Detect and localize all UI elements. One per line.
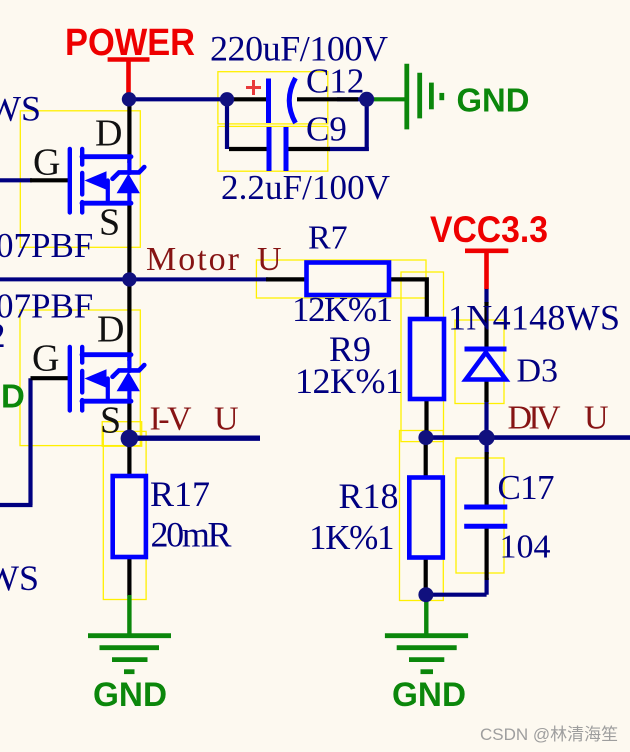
svg-text:07PBF: 07PBF: [0, 226, 93, 265]
pin C12 left: [229, 97, 267, 101]
svg-text:D3: D3: [517, 353, 559, 390]
svg-text:D: D: [97, 309, 124, 351]
junction node Motor_U: [122, 272, 136, 286]
svg-text:S: S: [99, 202, 120, 244]
selection box C12: [218, 72, 328, 124]
selection box R17: [103, 431, 146, 599]
svg-text:POWER: POWER: [65, 22, 195, 64]
junction node C12/C9 left: [220, 92, 234, 106]
wire POWER junction to cap junction: [129, 97, 227, 101]
pin D3 anode: [484, 379, 488, 402]
pin Q_top drain to diode: [127, 157, 131, 163]
svg-text:R17: R17: [150, 474, 210, 514]
pin R17 bottom: [127, 556, 131, 596]
pin C17 bottom: [485, 528, 489, 580]
pin R18 top: [424, 438, 428, 478]
junction node I-V_U: [121, 430, 139, 448]
resistor R9: [410, 319, 444, 399]
wire I-V_U: [129, 436, 260, 441]
transistor Q_bottom N-MOSFET symbol: [70, 347, 145, 411]
svg-text:G: G: [32, 338, 59, 380]
svg-text:DIV: DIV: [508, 400, 561, 437]
selection box R7: [256, 260, 426, 298]
svg-text:2.2uF/100V: 2.2uF/100V: [221, 168, 390, 207]
resistor R7: [307, 263, 390, 296]
svg-text:U: U: [257, 241, 282, 278]
diode D3: [465, 349, 507, 380]
wire C9 left branch vertical: [225, 99, 229, 149]
pin R7 right with corner: [388, 279, 427, 320]
resistor R18: [409, 478, 443, 558]
selection box Q_top MOSFET: [20, 111, 140, 248]
svg-text:12K%1: 12K%1: [292, 290, 393, 329]
svg-text:GND: GND: [457, 82, 530, 119]
pin R9 bottom: [424, 398, 428, 437]
pin Q_top gate: [30, 178, 68, 182]
svg-text:12K%1: 12K%1: [295, 361, 403, 401]
pin Q_top source vertical: [127, 203, 131, 279]
pin R17 top: [127, 438, 131, 477]
selection box R18: [400, 431, 444, 601]
pin R7 left: [266, 277, 308, 281]
selection box I-V wire: [102, 422, 142, 447]
selection box Q_bottom MOSFET: [20, 310, 140, 446]
ground symbol bottom left: [88, 595, 171, 672]
svg-text:WS: WS: [0, 558, 39, 598]
pin Q_bottom source vertical: [127, 401, 131, 438]
svg-text:Motor: Motor: [146, 241, 240, 278]
capacitor C12 polarized: [269, 78, 296, 123]
svg-text:07PBF: 07PBF: [0, 287, 93, 326]
pin D3 cathode from VCC: [484, 302, 488, 347]
pin C12 right: [297, 97, 358, 101]
resistor R17: [113, 476, 146, 557]
pin Q_bottom drain to diode: [127, 355, 131, 361]
pin C17 top: [485, 452, 489, 505]
pin R18 bottom: [424, 556, 428, 594]
svg-text:D: D: [1, 378, 25, 415]
wire C9 right branch horizontal: [329, 147, 369, 151]
pin Q_top drain vertical: [127, 103, 131, 157]
pin C9 right: [288, 147, 330, 151]
junction node R9/R18: [418, 430, 433, 445]
svg-text:R18: R18: [339, 476, 399, 516]
pin Q_bottom drain vertical: [127, 282, 131, 355]
svg-text:104: 104: [500, 529, 551, 566]
svg-text:2: 2: [0, 316, 6, 355]
svg-text:VCC3.3: VCC3.3: [430, 209, 548, 250]
svg-text:I-V: I-V: [150, 401, 192, 438]
wire gate Q_bottom horizontal to left edge: [0, 503, 33, 507]
junction node C12/C9 right GND: [359, 92, 374, 107]
C12 plus sign: [246, 80, 261, 95]
svg-text:CSDN @林清海笙: CSDN @林清海笙: [480, 725, 618, 744]
junction node R18 bottom: [418, 587, 433, 602]
transistor Q_top N-MOSFET symbol: [70, 149, 145, 213]
svg-text:U: U: [214, 401, 239, 438]
svg-text:20mR: 20mR: [151, 515, 232, 555]
svg-text:G: G: [33, 142, 60, 184]
svg-text:C17: C17: [498, 468, 555, 507]
selection box C17: [456, 458, 504, 573]
pin Q_bottom gate: [31, 376, 69, 380]
svg-text:C12: C12: [306, 62, 364, 101]
wire C17 bottom vertical: [485, 578, 489, 595]
capacitor C9: [269, 127, 286, 171]
svg-text:U: U: [584, 400, 609, 437]
svg-text:D: D: [95, 113, 122, 155]
wire DIV_U row: [426, 435, 630, 440]
wire D3 anode to DIV_U: [484, 400, 488, 438]
wire C17 top from DIV_U: [485, 438, 489, 454]
selection box C9: [218, 126, 328, 171]
svg-text:R7: R7: [308, 219, 348, 256]
ground symbol bottom right: [385, 600, 468, 672]
selection box D3: [455, 320, 504, 404]
svg-text:1K%1: 1K%1: [309, 518, 395, 557]
svg-text:S: S: [100, 400, 121, 442]
wire C9 right branch vertical: [365, 99, 369, 151]
junction node at POWER: [122, 92, 136, 106]
pin C9 left: [229, 147, 267, 151]
wire Motor_U horizontal: [0, 277, 268, 281]
svg-text:C9: C9: [306, 110, 347, 149]
capacitor C17: [464, 507, 507, 526]
ground symbol top right: [374, 64, 442, 130]
power port POWER bar symbol: [108, 60, 150, 95]
svg-text:GND: GND: [392, 676, 466, 714]
selection box R9: [401, 272, 444, 442]
svg-text:WS: WS: [0, 89, 41, 129]
junction node DIV_U: [479, 430, 495, 446]
wire gate Q_top: [0, 178, 32, 182]
wire gate Q_bottom vertical: [28, 378, 32, 505]
svg-text:GND: GND: [93, 676, 167, 714]
wire C17 bottom to R18 junction: [426, 593, 487, 597]
power port VCC3.3 bar symbol: [465, 251, 508, 289]
svg-text:1N4148WS: 1N4148WS: [448, 298, 620, 338]
wire VCC3.3 navy segment: [484, 288, 488, 303]
wire C12 right to GND junction: [337, 97, 367, 101]
